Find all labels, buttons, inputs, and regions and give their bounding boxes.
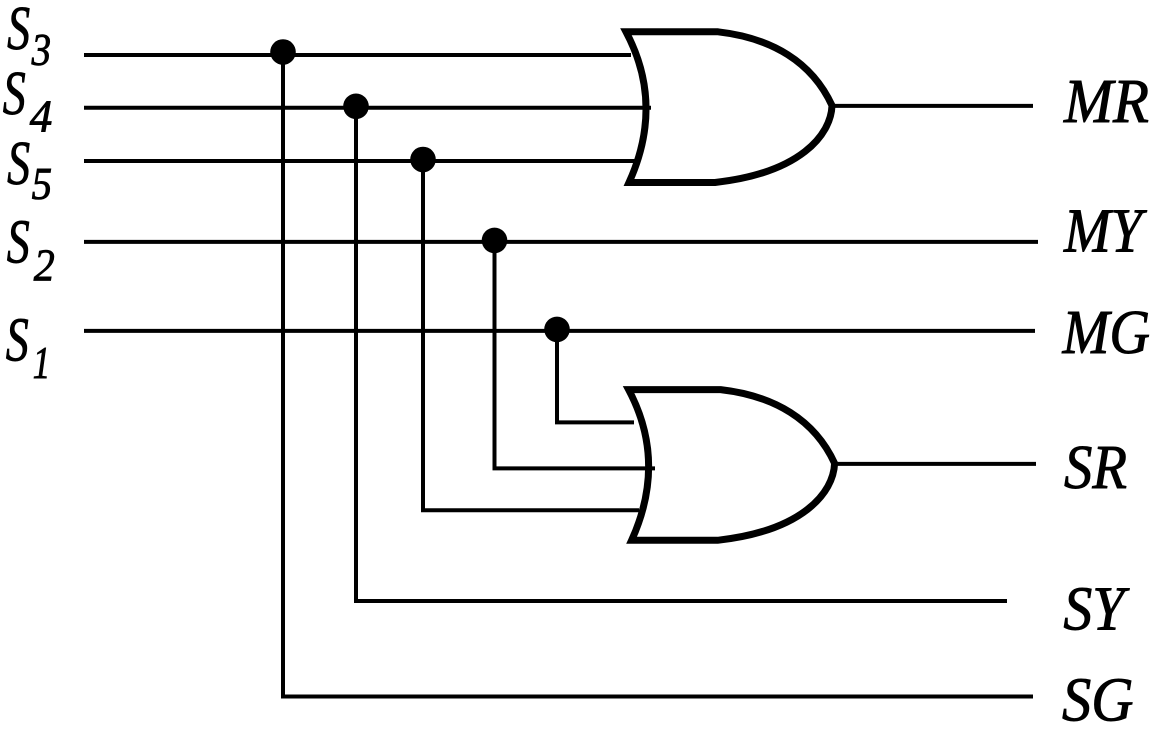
wire S2 to MY <box>84 240 1038 244</box>
svg-text:S: S <box>7 0 30 63</box>
svg-text:5: 5 <box>32 159 52 209</box>
svg-text:S: S <box>3 60 26 128</box>
svg-text:S: S <box>6 306 29 374</box>
svg-text:3: 3 <box>31 25 51 75</box>
svg-text:MG: MG <box>1062 299 1150 367</box>
svg-text:1: 1 <box>33 338 51 388</box>
svg-text:MY: MY <box>1063 197 1147 265</box>
or-gate U1 <box>626 32 832 183</box>
wire S4 branch to SY <box>356 108 1007 601</box>
svg-text:SR: SR <box>1064 434 1127 502</box>
wire S3 input <box>84 53 631 57</box>
junction dot on S1 <box>544 317 570 343</box>
or-gate U2 <box>629 390 835 541</box>
junction dot on S5 <box>410 147 436 173</box>
wire S1 branch to OR2 <box>557 331 634 423</box>
svg-text:S: S <box>7 209 30 277</box>
input label S2 <box>7 209 55 291</box>
svg-text:S: S <box>7 130 30 198</box>
wire S4 input <box>84 106 651 110</box>
wire MR output <box>831 104 1033 108</box>
junction dot on S3 <box>270 39 296 65</box>
wire S3 branch to SG <box>283 55 1033 697</box>
wire SR output <box>834 462 1036 466</box>
input label S4 <box>3 60 52 141</box>
svg-text:2: 2 <box>34 241 55 291</box>
junction dot on S4 <box>343 94 369 120</box>
wire S1 to MG <box>84 329 1035 333</box>
junction dot on S2 <box>482 228 508 254</box>
svg-text:4: 4 <box>30 91 53 141</box>
svg-text:SY: SY <box>1063 576 1129 644</box>
input label S1 <box>6 306 51 388</box>
svg-text:SG: SG <box>1062 667 1134 732</box>
wire S5 input <box>84 159 635 163</box>
svg-text:MR: MR <box>1063 68 1149 136</box>
input label S5 <box>7 130 52 209</box>
wire S5 branch to OR2 <box>423 161 639 510</box>
wire S2 branch to OR2 <box>495 242 656 469</box>
input label S3 <box>7 0 51 75</box>
